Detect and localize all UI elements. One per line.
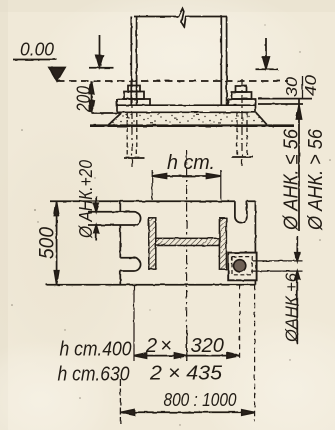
h st dimension line — [152, 175, 221, 177]
dimension 200 line — [91, 81, 93, 113]
h st extension lines — [152, 170, 221, 200]
0.00 level dashed line — [57, 80, 288, 82]
left anchor nut stack — [128, 86, 140, 92]
svg-text:Ø АНК. > 56: Ø АНК. > 56 — [305, 128, 327, 231]
extension line plate right edge dashed — [254, 285, 256, 422]
plate top edge (with 500 extension) — [50, 200, 255, 202]
right anchor nut stack — [236, 86, 247, 92]
svg-text:h ст.400: h ст.400 — [60, 338, 133, 361]
top right slot — [235, 201, 247, 222]
dim row 800:1000 line — [121, 411, 255, 413]
svg-text:2 × 435: 2 × 435 — [149, 363, 223, 385]
base plate (elevation) — [117, 99, 256, 112]
svg-text:h ст.: h ст. — [167, 152, 215, 174]
right load arrow — [265, 38, 267, 64]
svg-text:500: 500 — [36, 227, 59, 259]
right bolt end tick — [232, 156, 254, 158]
hole dia dimension line lower — [296, 272, 298, 344]
0.00 underline — [13, 59, 57, 61]
left bolt end tick — [124, 157, 145, 159]
left bolt shaft dashed — [127, 113, 137, 158]
dim row1 line 2x320 — [134, 355, 239, 357]
svg-text:800 : 1000: 800 : 1000 — [164, 390, 237, 410]
plate right edge — [254, 201, 256, 284]
anchor bolt circle — [234, 260, 246, 272]
column top edge with break symbol — [134, 9, 227, 28]
svg-text:2×: 2× — [145, 335, 175, 357]
foundation top line — [90, 124, 294, 127]
dimension 500 line — [56, 202, 58, 284]
grout pad — [109, 112, 267, 125]
svg-text:40: 40 — [303, 75, 320, 96]
dim 200 bottom reference line — [92, 112, 121, 114]
left anchor bolt centerline — [131, 79, 133, 168]
I-section web — [156, 238, 220, 245]
slot width dim arrows — [95, 196, 97, 211]
svg-text:ØАНК.+6: ØАНК.+6 — [282, 272, 301, 342]
svg-text:320: 320 — [191, 335, 224, 357]
plan vertical centerline — [186, 150, 188, 361]
plate bottom edge (with 500 extension) — [46, 284, 255, 286]
svg-text:200: 200 — [74, 86, 95, 113]
right annotation reference line A — [258, 98, 312, 100]
I-section left flange — [149, 218, 156, 269]
right annotation divider / dimension line — [298, 99, 300, 231]
plate left edge — [119, 201, 121, 284]
svg-text:30: 30 — [284, 77, 301, 97]
dashed hole square — [232, 257, 252, 275]
right annotation reference line B — [258, 103, 303, 105]
right bolt shaft dashed — [237, 113, 247, 157]
extension line left slot center — [133, 285, 135, 361]
right anchor bolt centerline — [241, 79, 243, 166]
column right flange (elevation) — [221, 17, 226, 106]
svg-text:Ø АНК. ≤ 56: Ø АНК. ≤ 56 — [281, 128, 303, 231]
center separator solid — [186, 330, 188, 361]
svg-text:0.00: 0.00 — [20, 40, 54, 60]
extension line plate left edge — [119, 379, 121, 424]
I-section right flange — [219, 218, 226, 269]
column left flange (elevation) — [131, 17, 136, 106]
extension line bolt center dashed — [239, 285, 241, 361]
svg-text:h ст.630: h ст.630 — [58, 363, 131, 386]
level mark triangle — [49, 68, 65, 82]
hole dia dimension line upper — [296, 236, 298, 260]
anchor diameter divider upper — [302, 76, 304, 99]
left slot 1 with extension lines — [88, 212, 141, 225]
left slot 2 — [120, 258, 140, 271]
hole leader lines — [251, 261, 303, 271]
anchor washer square — [228, 253, 256, 281]
svg-text:Ø АНК.+20: Ø АНК.+20 — [76, 160, 96, 239]
left load arrow — [99, 35, 101, 62]
grout stipple dots — [112, 113, 263, 124]
